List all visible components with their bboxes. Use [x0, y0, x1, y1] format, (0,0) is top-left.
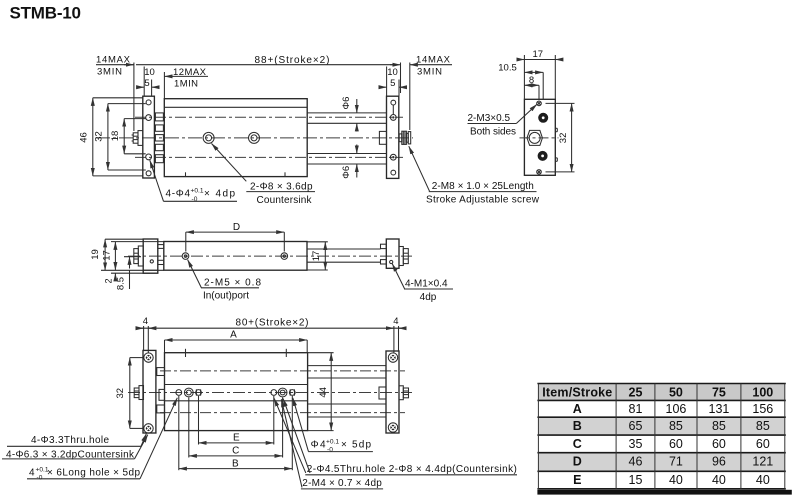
dim E [199, 396, 274, 445]
svg-text:4-Φ4: 4-Φ4 [166, 189, 191, 200]
svg-text:10: 10 [144, 67, 155, 78]
svg-text:E: E [573, 473, 581, 487]
svg-text:32: 32 [115, 388, 126, 399]
svg-text:Φ4: Φ4 [311, 439, 326, 450]
svg-text:60: 60 [669, 437, 683, 451]
label 2-M3x0.5 Both sides [468, 104, 538, 137]
top view: upper bore center line [135, 116, 403, 118]
svg-text:4: 4 [393, 316, 398, 327]
dim A [165, 330, 308, 353]
dim C [189, 398, 283, 458]
svg-text:4-M1×0.4: 4-M1×0.4 [405, 279, 448, 290]
svg-text:2-Φ4.5Thru.hole 2-Φ8 × 4.4dp(C: 2-Φ4.5Thru.hole 2-Φ8 × 4.4dp(Countersink… [307, 464, 517, 475]
end view: right edge ticks [555, 128, 557, 161]
middle view dim D [186, 222, 284, 252]
middle view: right rod [307, 249, 381, 262]
middle view: left tall block [143, 239, 158, 273]
dim 14MAX/3MIN right [410, 54, 452, 130]
svg-text:A: A [230, 330, 237, 341]
svg-text:40: 40 [756, 473, 770, 487]
bottom view: right plate [386, 351, 399, 433]
bottom view: center block right [379, 387, 386, 399]
end view dim 8 [524, 75, 539, 100]
bottom view: main center line [128, 392, 412, 394]
svg-text:8.5: 8.5 [116, 277, 127, 290]
svg-text:B: B [573, 419, 582, 433]
svg-text:C: C [232, 446, 239, 457]
label 2-Phi8 x 3.6dp Countersink [212, 144, 316, 206]
svg-text:71: 71 [669, 455, 683, 469]
svg-text:106: 106 [666, 402, 687, 416]
svg-text:5: 5 [144, 78, 149, 89]
svg-text:100: 100 [752, 386, 773, 400]
bottom view: right plate screw bottom [388, 423, 397, 432]
svg-text:121: 121 [752, 455, 773, 469]
svg-text:-0: -0 [37, 475, 43, 482]
svg-text:× 6Long hole × 5dp: × 6Long hole × 5dp [47, 467, 140, 478]
dim 14MAX/3MIN left [96, 54, 131, 77]
bottom view: left plate [143, 350, 156, 433]
table: stroke data [537, 384, 791, 495]
bottom view: right plate screw top [388, 353, 397, 362]
top view: body bottom tick marks [186, 172, 286, 176]
top view: tabs between left plate and body [155, 113, 163, 163]
middle view: body [164, 242, 307, 271]
middle view: right end nut [399, 247, 408, 266]
svg-text:3MIN: 3MIN [97, 67, 122, 78]
top view: left rod-end nut [132, 131, 143, 146]
svg-text:10: 10 [387, 67, 398, 78]
svg-text:Both sides: Both sides [470, 126, 516, 137]
dim 18 [110, 119, 146, 154]
svg-text:40: 40 [669, 473, 683, 487]
end view: corner screw top [537, 101, 542, 106]
svg-text:E: E [233, 433, 240, 444]
label 4-Phi3.3 Thru hole [7, 434, 146, 447]
bottom view: left rod nut [134, 386, 143, 400]
top view: center stopper block at right plate [379, 131, 386, 144]
svg-text:D: D [573, 455, 582, 469]
svg-text:17: 17 [533, 49, 544, 60]
svg-text:4dp: 4dp [420, 292, 437, 303]
bottom view: bore center line upper [160, 370, 405, 372]
middle view dim 8.5 [116, 257, 141, 290]
dim 10 / 5 right [379, 67, 406, 97]
middle view: port left [182, 253, 189, 260]
svg-text:60: 60 [712, 437, 726, 451]
svg-text:Φ6: Φ6 [341, 166, 352, 179]
end view dim 32 [546, 103, 575, 171]
svg-text:Stroke Adjustable screw: Stroke Adjustable screw [426, 194, 540, 205]
svg-text:3MIN: 3MIN [417, 67, 442, 78]
middle view: tabs left [158, 245, 164, 265]
dim Phi6 upper [341, 97, 357, 132]
svg-text:× 4dp: × 4dp [204, 189, 235, 200]
middle view dim 17 left [102, 242, 164, 271]
svg-text:2-Φ8 × 3.6dp: 2-Φ8 × 3.6dp [250, 182, 313, 193]
svg-text:75: 75 [712, 386, 726, 400]
middle view: right block [386, 239, 399, 268]
svg-text:2: 2 [104, 278, 114, 283]
svg-text:35: 35 [629, 437, 643, 451]
svg-text:4: 4 [29, 467, 35, 478]
svg-text:+0.1: +0.1 [326, 438, 339, 445]
dim 44 [308, 353, 334, 431]
label 4-Phi6.3 countersink [2, 435, 148, 461]
svg-text:8: 8 [529, 75, 534, 86]
svg-text:2-M5 × 0.8: 2-M5 × 0.8 [204, 277, 261, 288]
dim 80+(Stroke x2) [137, 316, 406, 352]
svg-text:D: D [233, 222, 240, 233]
top view: countersink hole left (2-Phi8) [203, 132, 214, 143]
svg-text:17: 17 [102, 250, 113, 261]
svg-text:-0: -0 [192, 196, 198, 203]
dim B [179, 396, 292, 470]
top view: upper piston rod [307, 113, 386, 123]
svg-text:In(out)port: In(out)port [203, 291, 249, 302]
svg-text:5: 5 [390, 78, 395, 89]
top view: lower bore center line [135, 156, 403, 158]
bottom view: right end nut [399, 386, 409, 400]
bottom view: rods right [308, 366, 386, 417]
top view: stroke adjustable screw nut [399, 131, 411, 144]
svg-text:65: 65 [629, 419, 643, 433]
svg-text:85: 85 [712, 419, 726, 433]
middle view: left rod nut [134, 246, 143, 266]
svg-text:40: 40 [712, 473, 726, 487]
svg-text:44: 44 [318, 387, 329, 398]
svg-text:4-Φ3.3Thru.hole: 4-Φ3.3Thru.hole [31, 435, 109, 446]
dim 32 left top-view [94, 104, 146, 170]
label 2-M4x0.7x4dp [281, 399, 383, 489]
svg-text:96: 96 [712, 455, 726, 469]
top view: main center line [96, 137, 413, 139]
label Phi4 x5dp [293, 398, 373, 454]
svg-text:17: 17 [311, 251, 322, 262]
svg-text:Φ6: Φ6 [341, 97, 352, 110]
svg-text:80+(Stroke×2): 80+(Stroke×2) [236, 318, 309, 329]
svg-text:18: 18 [110, 131, 121, 142]
end view: M3 hole top [538, 113, 548, 123]
dim 12MAX/1MIN [164, 67, 208, 99]
bottom view: body [165, 353, 308, 431]
svg-text:14MAX: 14MAX [96, 54, 131, 65]
top view: cylinder body [164, 99, 307, 177]
svg-text:85: 85 [756, 419, 770, 433]
svg-text:A: A [573, 402, 582, 416]
svg-text:46: 46 [629, 455, 643, 469]
middle view: tabs right [381, 244, 387, 264]
bottom view: body top ticks [186, 349, 287, 357]
svg-text:Countersink: Countersink [257, 195, 313, 206]
middle view dim 17 right [307, 242, 328, 270]
svg-text:60: 60 [756, 437, 770, 451]
svg-text:15: 15 [629, 473, 643, 487]
label 4-Phi4 x4dp [150, 160, 237, 203]
end view: M3 hole bottom [538, 151, 548, 161]
svg-text:46: 46 [79, 132, 90, 143]
top view: lower piston rod [307, 154, 386, 165]
middle view: port right [281, 253, 288, 260]
top view: right end plate [387, 96, 399, 178]
end view: hex port [527, 130, 542, 145]
svg-text:2-M8 × 1.0 × 25Length: 2-M8 × 1.0 × 25Length [432, 181, 534, 192]
dim 46 left [79, 98, 143, 176]
svg-text:85: 85 [669, 419, 683, 433]
svg-text:4: 4 [143, 316, 148, 327]
svg-text:81: 81 [629, 402, 643, 416]
svg-text:1MIN: 1MIN [174, 78, 198, 89]
bottom view: right hole group [271, 388, 295, 397]
bottom view: left hole group [176, 388, 202, 397]
label 2-M5x0.8 In(out)port [188, 260, 262, 302]
svg-text:C: C [573, 437, 582, 451]
end view: plate body [524, 99, 555, 175]
svg-text:25: 25 [629, 386, 643, 400]
svg-text:32: 32 [558, 133, 569, 144]
bottom view: left plate screw bottom [144, 424, 153, 433]
svg-text:19: 19 [90, 249, 101, 260]
end view dim 10.5 [498, 62, 543, 99]
svg-text:+0.1: +0.1 [191, 188, 204, 195]
middle view: center line [128, 255, 412, 257]
svg-text:2-M3×0.5: 2-M3×0.5 [468, 113, 511, 124]
end view dim 17 [517, 49, 563, 99]
svg-text:2-M4 × 0.7 × 4dp: 2-M4 × 0.7 × 4dp [302, 478, 382, 489]
end view: center line [520, 137, 559, 139]
svg-text:10.5: 10.5 [498, 62, 517, 73]
svg-text:-0: -0 [327, 447, 333, 454]
svg-text:STMB-10: STMB-10 [10, 4, 82, 23]
bottom view: left plate screw top [144, 353, 153, 362]
svg-text:Item/Stroke: Item/Stroke [542, 386, 612, 400]
dim 32 bottom view [115, 358, 144, 429]
middle view dim 19 [90, 239, 164, 270]
top view: countersink hole right [249, 132, 260, 143]
svg-text:156: 156 [752, 402, 773, 416]
middle view dim 2 [104, 273, 150, 283]
svg-text:× 5dp: × 5dp [341, 439, 371, 450]
svg-text:131: 131 [709, 402, 730, 416]
svg-text:32: 32 [94, 131, 105, 142]
end view: corner screw bottom [537, 170, 542, 175]
dim Phi6 lower [341, 145, 357, 179]
label 2-Phi4.5 thru 2-Phi8x4.4dp countersink [274, 398, 517, 475]
dim 88+(Stroke x2) [96, 55, 401, 131]
svg-text:B: B [232, 458, 239, 469]
bottom view: bore center line lower [160, 412, 405, 414]
dim 10 / 5 left [137, 67, 159, 97]
top view: left end plate [143, 96, 155, 178]
label 4-M1x0.4 4dp [392, 264, 453, 303]
svg-text:14MAX: 14MAX [416, 54, 451, 65]
svg-text:50: 50 [669, 386, 683, 400]
bottom view: tabs left plate-body [157, 368, 165, 413]
label 2-M8 stroke adjustable screw [409, 146, 540, 205]
label 4 long hole x5dp [27, 398, 177, 482]
